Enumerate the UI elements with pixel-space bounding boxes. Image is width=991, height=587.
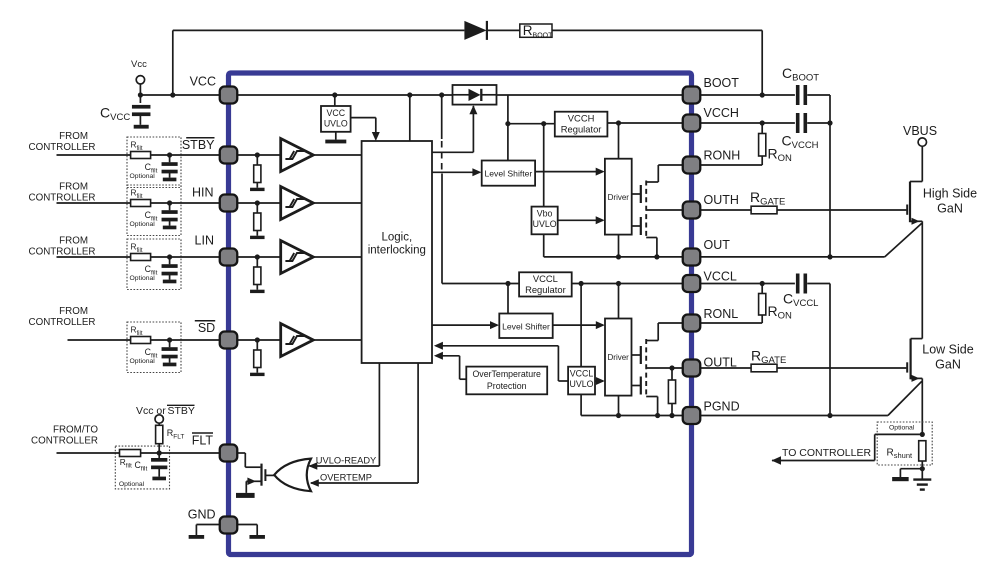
svg-text:VCCH: VCCH — [568, 113, 595, 124]
svg-text:Vcc: Vcc — [131, 59, 147, 70]
svg-text:FROM: FROM — [59, 182, 88, 193]
svg-text:Protection: Protection — [487, 381, 527, 391]
svg-text:SD: SD — [198, 321, 215, 335]
svg-text:RONL: RONL — [704, 307, 739, 321]
svg-text:VCCL: VCCL — [533, 273, 558, 284]
svg-text:Optional: Optional — [119, 481, 145, 488]
svg-text:GND: GND — [188, 508, 216, 522]
svg-text:OverTemperature: OverTemperature — [472, 369, 541, 379]
svg-text:VCCL: VCCL — [704, 270, 737, 284]
svg-text:PGND: PGND — [704, 400, 740, 414]
svg-text:FROM: FROM — [59, 131, 88, 142]
svg-text:RONH: RONH — [704, 149, 741, 163]
svg-text:VCC: VCC — [190, 75, 216, 89]
svg-text:FROM: FROM — [59, 236, 88, 247]
svg-text:Optional: Optional — [130, 275, 156, 282]
svg-text:Regulator: Regulator — [561, 124, 602, 135]
svg-text:FROM: FROM — [59, 306, 88, 317]
svg-text:OUTL: OUTL — [704, 356, 737, 370]
svg-text:VCC: VCC — [327, 108, 346, 118]
svg-text:Level Shifter: Level Shifter — [502, 321, 550, 331]
svg-text:STBY: STBY — [182, 138, 215, 152]
svg-text:FROM/TO: FROM/TO — [53, 425, 98, 436]
svg-text:GaN: GaN — [935, 358, 961, 372]
svg-text:Level Shifter: Level Shifter — [485, 169, 533, 179]
svg-text:UVLO-READY: UVLO-READY — [316, 455, 376, 465]
svg-text:TO CONTROLLER: TO CONTROLLER — [782, 447, 871, 459]
svg-text:Optional: Optional — [130, 221, 156, 228]
svg-text:CONTROLLER: CONTROLLER — [29, 317, 96, 328]
svg-text:OVERTEMP: OVERTEMP — [320, 472, 372, 482]
svg-text:VCCH: VCCH — [704, 106, 739, 120]
svg-text:OUTH: OUTH — [704, 193, 739, 207]
svg-text:FLT: FLT — [192, 434, 214, 448]
svg-text:interlocking: interlocking — [368, 245, 426, 257]
svg-text:UVLO: UVLO — [324, 118, 348, 128]
svg-text:Logic,: Logic, — [381, 232, 412, 244]
svg-text:CONTROLLER: CONTROLLER — [31, 436, 98, 447]
svg-text:CONTROLLER: CONTROLLER — [29, 247, 96, 258]
svg-text:Vbo: Vbo — [537, 209, 553, 219]
svg-text:CONTROLLER: CONTROLLER — [29, 142, 96, 153]
svg-text:CONTROLLER: CONTROLLER — [29, 193, 96, 204]
svg-text:VBUS: VBUS — [903, 124, 937, 138]
svg-text:UVLO: UVLO — [570, 379, 594, 389]
svg-text:HIN: HIN — [192, 186, 214, 200]
svg-text:STBY: STBY — [168, 405, 195, 417]
svg-text:Optional: Optional — [130, 173, 156, 180]
svg-text:OUT: OUT — [704, 238, 731, 252]
svg-text:GaN: GaN — [937, 202, 963, 216]
svg-text:BOOT: BOOT — [704, 76, 740, 90]
svg-text:Optional: Optional — [889, 425, 915, 432]
svg-text:Regulator: Regulator — [525, 284, 566, 295]
svg-text:LIN: LIN — [195, 234, 214, 248]
svg-text:UVLO: UVLO — [533, 219, 557, 229]
svg-text:High Side: High Side — [923, 187, 977, 201]
svg-text:Low Side: Low Side — [922, 343, 973, 357]
svg-text:Driver: Driver — [608, 193, 630, 202]
svg-text:VCCL: VCCL — [570, 369, 594, 379]
svg-text:Driver: Driver — [608, 353, 630, 362]
svg-text:Optional: Optional — [130, 358, 156, 365]
